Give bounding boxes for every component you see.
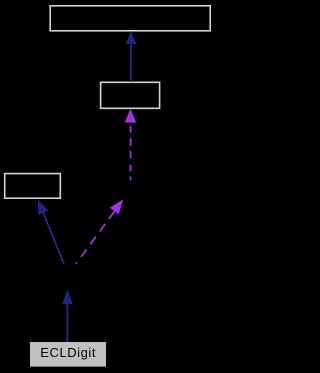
inheritance arrow: ECLDigit to hidden node — [62, 290, 73, 343]
svg-text:ECLDigit: ECLDigit — [40, 345, 96, 360]
node box: TObject (top, label invisible) — [50, 6, 210, 31]
inheritance arrow: middle box to top box — [126, 31, 137, 82]
template relation arrow (dashed diagonal) — [76, 199, 123, 264]
template relation arrow (dashed) to middle box — [125, 109, 137, 181]
inheritance arrow: hidden node to left box — [38, 199, 64, 264]
node box: RelationsInterface&lt;TObject&gt; (middle, label invisible) — [101, 82, 160, 108]
node box: ECLDigit (current class, grey fill) — [30, 342, 106, 367]
node box: left class (label invisible) — [5, 174, 61, 199]
